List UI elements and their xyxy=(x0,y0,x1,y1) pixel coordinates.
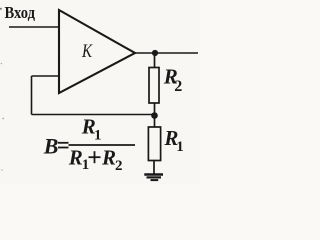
wire R2 to node xyxy=(154,103,156,127)
op-amp K (amplifier triangle) xyxy=(59,10,135,93)
wire feedback vertical xyxy=(31,76,33,115)
node output junction xyxy=(152,50,158,56)
wire feedback bottom xyxy=(32,114,155,116)
resistor R2 xyxy=(149,68,159,104)
label R1 xyxy=(163,126,183,155)
resistor R1 xyxy=(148,127,160,161)
node feedback junction xyxy=(151,112,158,119)
scan speckles xyxy=(0,8,4,171)
input label Вход xyxy=(5,3,36,22)
wire feedback top xyxy=(32,75,60,77)
ground xyxy=(144,175,163,181)
wire output xyxy=(135,52,198,54)
wire output node to R2 xyxy=(154,53,156,68)
label R2 xyxy=(163,64,183,94)
wire R1 to ground xyxy=(153,161,155,175)
formula B = R1/(R1+R2) xyxy=(43,115,135,175)
paper grain overlay xyxy=(0,0,200,184)
wire input xyxy=(9,26,59,28)
